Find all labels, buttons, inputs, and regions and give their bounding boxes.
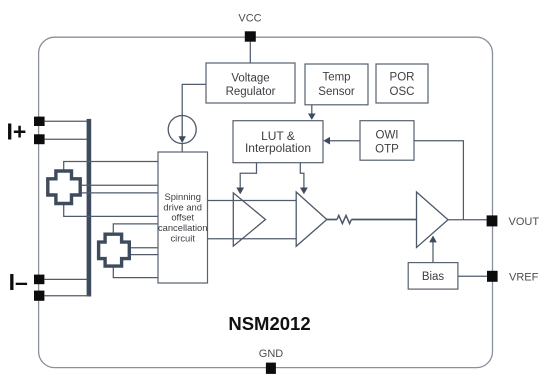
arrow Bias to output buffer U1 — [429, 236, 437, 263]
pin I- pad 1 — [34, 275, 44, 285]
wire hall plate H2 top to spinning circuit — [113, 224, 158, 233]
block POR OSC — [376, 64, 428, 103]
pin I- pad 2 — [34, 291, 44, 301]
svg-text:NSM2012: NSM2012 — [228, 313, 310, 334]
pin VCC — [245, 31, 256, 41]
wire hall plate H2 right contact b to spinning circuit — [131, 254, 159, 256]
op-amp U1 output buffer — [417, 192, 449, 248]
wire hall plate H1 right contact b to spinning circuit — [82, 192, 158, 194]
svg-text:GND: GND — [259, 348, 284, 360]
pin I+ pad 2 — [34, 134, 45, 144]
wire current source to spinning circuit — [181, 144, 183, 153]
svg-text:Regulator: Regulator — [226, 86, 276, 98]
block spinning circuit — [158, 152, 208, 283]
svg-text:Interpolation: Interpolation — [245, 141, 311, 155]
wire I+ pad 1 to sense bar — [45, 120, 87, 122]
chip boundary — [39, 37, 493, 367]
svg-text:drive and: drive and — [163, 201, 202, 212]
wire hall plate H2 bottom to spinning circuit — [113, 267, 158, 278]
block LUT & Interpolation — [233, 121, 323, 163]
svg-text:cancellation: cancellation — [158, 222, 208, 233]
wire hall plate H1 bottom to spinning circuit — [64, 205, 158, 217]
svg-text:VOUT: VOUT — [509, 216, 540, 228]
wire Voltage Regulator to current source I1 — [182, 84, 206, 115]
wire I- pad 2 to sense bar — [44, 295, 89, 297]
svg-text:Sensor: Sensor — [318, 86, 355, 98]
wire spinning circuit to A2 negative input — [208, 238, 297, 240]
current source I1 — [168, 116, 196, 144]
arrow Temp Sensor to LUT — [308, 105, 316, 120]
hall plate H1 — [48, 171, 80, 204]
wire VCC to Voltage Regulator — [249, 42, 251, 63]
block Temp Sensor — [305, 64, 368, 105]
pin I+ pad 1 — [34, 117, 45, 126]
pin VOUT — [487, 215, 498, 226]
svg-text:circuit: circuit — [170, 233, 195, 244]
svg-text:Temp: Temp — [322, 72, 350, 84]
arrow OWI OTP to LUT — [323, 137, 360, 145]
svg-text:OTP: OTP — [375, 144, 399, 156]
wire hall plate H1 right contact a to spinning circuit — [82, 184, 158, 186]
arrow LUT to amplifier A2 — [300, 163, 308, 195]
wire hall plate H2 right contact a to spinning circuit — [131, 247, 159, 249]
wire I+ pad 2 to sense bar — [45, 138, 87, 140]
svg-text:Bias: Bias — [422, 271, 445, 283]
arrow LUT to amplifier A1 — [236, 163, 256, 195]
amplifier A1 — [233, 193, 265, 246]
svg-text:Spinning: Spinning — [164, 191, 201, 202]
block Voltage Regulator — [206, 63, 295, 103]
svg-text:OWI: OWI — [376, 130, 399, 142]
wire resistor R1 to output buffer U1 — [351, 219, 416, 221]
pin VREF — [487, 271, 498, 282]
wire output buffer U1 to VOUT — [448, 219, 487, 221]
block OWI OTP — [360, 121, 414, 161]
wire OWI OTP to output net — [414, 141, 463, 220]
wire hall plate H1 top to spinning circuit — [64, 162, 158, 171]
block Bias — [408, 263, 458, 290]
svg-text:VCC: VCC — [238, 13, 261, 25]
svg-text:Voltage: Voltage — [231, 73, 269, 85]
svg-text:OSC: OSC — [390, 86, 415, 98]
svg-text:I+: I+ — [7, 118, 27, 144]
resistor R1 — [337, 216, 351, 224]
current sense bar — [87, 119, 92, 297]
pin GND — [266, 363, 276, 374]
svg-text:POR: POR — [390, 72, 415, 84]
wire Bias to VREF — [458, 275, 487, 277]
wire I- pad 1 to sense bar — [44, 278, 87, 280]
amplifier A2 — [296, 192, 327, 246]
hall plate H2 — [99, 234, 130, 266]
svg-text:offset: offset — [171, 212, 194, 223]
svg-text:VREF: VREF — [509, 271, 539, 283]
wire spinning circuit to A2 positive input — [208, 200, 297, 202]
wire A2 to resistor R1 — [327, 219, 337, 221]
svg-text:I–: I– — [9, 269, 28, 295]
